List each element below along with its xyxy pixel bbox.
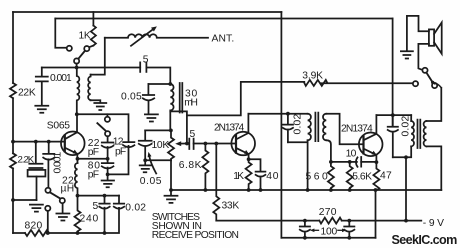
wire 30mH branch to transmit line: [170, 111, 187, 143]
wire bottom-left rail to 0.02 corner: [49, 208, 119, 233]
svg-text:-9V: -9V: [423, 218, 444, 229]
resistor 22K (in left rail): [10, 83, 16, 98]
svg-text:2N1374: 2N1374: [214, 123, 244, 134]
transistor S065 circle: [61, 132, 85, 156]
ground below feedback node: [102, 174, 114, 187]
capacitor 22pF plates: [102, 143, 114, 148]
capacitor 5 (audio coupling) plates: [189, 139, 193, 149]
wire Q2 emitter down: [248, 154, 250, 159]
ground below crystal: [30, 205, 43, 212]
node 100uF B top: [347, 219, 351, 223]
transformer T2 primary coil: [411, 121, 414, 146]
wire -9V line: [216, 220, 319, 222]
capacitor 0.05 (detector) bottom lead: [144, 146, 146, 160]
capacitor 0.001 lower lead to switch: [47, 159, 49, 187]
wire S1b lower contact to bottom rail: [47, 211, 49, 233]
resistor 270 (in -9V line): [319, 218, 341, 224]
transistor Q3 2N1374 base bar: [362, 136, 364, 153]
wire 3.9K to speaker switch contact: [321, 82, 413, 84]
wire Q3 collector row: [376, 114, 411, 116]
node 0.001 bypass top: [47, 140, 51, 144]
wire wiper node to 5 cap: [187, 143, 189, 145]
capacitor 5 bottom lead: [104, 208, 106, 233]
node emitter bypass: [76, 194, 80, 198]
oscillator transformer primary (left coil): [77, 68, 80, 115]
svg-text:560: 560: [306, 172, 328, 183]
wire 560 node to 5.6K node: [331, 161, 350, 163]
wire T1 primary bottom to ground rail: [307, 140, 309, 190]
svg-text:10: 10: [346, 149, 357, 160]
svg-text:240: 240: [80, 214, 99, 225]
svg-text:2N1374: 2N1374: [341, 124, 373, 135]
resistor 560: [328, 162, 334, 190]
node primary-bottom riser: [404, 155, 408, 159]
wire bottom rail right section: [281, 237, 375, 239]
switch S1c arm: [97, 123, 106, 131]
switch S1a arm: [78, 51, 85, 59]
node T1 primary bottom rail: [306, 188, 310, 192]
resistor 5.6K: [347, 162, 353, 190]
node junction at pole wire: [75, 66, 79, 70]
transistor S065 collector: [66, 114, 78, 139]
capacitor 10 plates: [356, 157, 361, 167]
node feedback lower: [106, 173, 110, 177]
svg-text:0.02: 0.02: [293, 114, 304, 135]
variable inductor (antenna tuning coil): [105, 34, 208, 38]
svg-text:0.05: 0.05: [121, 92, 142, 103]
svg-text:mH: mH: [184, 98, 198, 109]
node 6.8K bottom: [204, 188, 208, 192]
capacitor 0.001 plates: [36, 77, 48, 82]
switch S1d arm: [426, 73, 432, 83]
node 240 bottom: [76, 231, 80, 235]
node base rail left: [11, 140, 15, 144]
wire 0.02 IF bottom row: [288, 141, 308, 143]
wire collector node to 12pF corner: [77, 114, 129, 142]
speaker bottom terminal wire: [418, 44, 429, 70]
svg-text:820: 820: [25, 221, 43, 232]
wire switch pole to oscillator node: [76, 64, 78, 68]
svg-text:ANT.: ANT.: [212, 34, 235, 45]
label 100 right arrow: [338, 229, 343, 231]
svg-text:S065: S065: [47, 121, 70, 132]
capacitor 5 (top coupling) left plate: [139, 62, 141, 72]
transistor Q2 emitter: [237, 148, 249, 154]
capacitor 40: [256, 172, 266, 190]
svg-text:5.6K: 5.6K: [352, 172, 372, 183]
capacitor 5 (emitter bypass) plates: [99, 204, 109, 209]
wire left rail lower: [12, 98, 14, 233]
ground stub below 0.05 det: [140, 160, 151, 172]
resistor 3.9K: [304, 80, 327, 86]
node feedback mid: [106, 157, 110, 161]
svg-text:1K: 1K: [79, 31, 91, 42]
svg-text:270: 270: [319, 207, 337, 218]
svg-text:pF: pF: [88, 170, 99, 181]
node 0.02 IF top: [286, 112, 290, 116]
wire Q2 collector row: [248, 113, 307, 115]
node crystal top: [34, 140, 38, 144]
leader arrow for 0.05 label: [149, 156, 156, 173]
ground symbol on rail at 10K: [165, 190, 178, 203]
switch S1c pole: [105, 131, 110, 136]
resistor 2.2K (in left rail): [10, 153, 16, 168]
wire Q2 emitter to 40 cap: [249, 159, 261, 171]
wire 5 cap to 30mH corner: [146, 68, 170, 85]
wire 80pF to lower node: [107, 168, 109, 175]
capacitor 22pF top lead from S1c pole: [107, 136, 109, 142]
resistor 33K (base wire to -9V): [213, 144, 219, 221]
transformer T1 core: [315, 113, 318, 142]
ground below speaker: [401, 51, 413, 58]
node bottom rail switch riser: [46, 231, 50, 235]
transistor Q2 2N1374 base bar: [235, 135, 237, 152]
speaker top terminal wire: [407, 16, 429, 50]
switch S1b pole ground stub: [62, 203, 64, 212]
node 560 bottom: [329, 188, 333, 192]
inductor 22uH: [75, 163, 78, 196]
switch S1b contact lower: [45, 206, 50, 211]
resistor 47: [373, 162, 379, 190]
wire S1d right contact to T2 riser: [435, 84, 442, 88]
transformer T2 core: [418, 120, 421, 148]
switch S1b pole: [60, 198, 65, 203]
wire 0.05 det to 10K bottom: [145, 159, 171, 161]
speaker driver: [429, 29, 434, 45]
wire 0.02 output bottom row: [393, 146, 411, 157]
capacitor 0.02 (emitter bypass) plates: [114, 204, 124, 209]
svg-text:5: 5: [143, 55, 149, 66]
transistor S065 emitter column node: [76, 157, 80, 161]
node 5 top: [103, 194, 107, 198]
capacitor 0.001 emitter-switch plates: [43, 154, 54, 160]
wire 5.6K node to 10 cap: [350, 161, 357, 163]
potentiometer 10K element: [168, 130, 174, 160]
svg-text:RECEIVE POSITION: RECEIVE POSITION: [152, 230, 239, 241]
label 100 left arrow: [314, 229, 319, 231]
node 10K top: [169, 129, 173, 133]
wire T1 secondary bottom down: [326, 140, 331, 162]
capacitor 0.02 (output): [388, 115, 398, 157]
wire emitter down to 22uH: [76, 154, 78, 163]
node 33K top: [214, 142, 218, 146]
wire T1 secondary top to Q3 base: [326, 114, 363, 145]
ground below 0.05 osc: [145, 114, 158, 121]
transistor Q2 collector: [237, 114, 249, 139]
svg-text:6.8K: 6.8K: [179, 160, 202, 171]
node Q3 emitter: [375, 160, 379, 164]
wire emitter to feedback node: [78, 158, 108, 160]
capacitor 0.05 (detector) top lead: [144, 130, 146, 140]
ground below oscillator secondary: [94, 103, 106, 110]
capacitor 0.05 (detector) plates: [139, 141, 152, 146]
crystal bottom lead: [36, 177, 38, 201]
wire left rail to crystal ground: [13, 199, 37, 201]
wire second rail right drop to output stage: [392, 19, 394, 127]
wire T2 primary top lead: [410, 115, 412, 121]
wire riser to -9V: [405, 157, 407, 220]
transistor Q2 emitter arrowhead: [244, 150, 249, 155]
resistor 1K lead from top rail: [92, 12, 94, 26]
wire bottom-left rail segment: [13, 232, 25, 234]
transistor Q3 2N1374 circle: [359, 133, 383, 157]
wire bypass row: [78, 195, 120, 197]
wire T2 secondary top to switch: [426, 88, 441, 121]
node 560 top: [329, 160, 333, 164]
transformer T1 secondary coil: [323, 114, 326, 141]
capacitor 0.02 (emitter bypass) top lead: [118, 196, 120, 204]
node 30mH top: [168, 82, 172, 86]
resistor 1K (Q2 emitter): [246, 159, 252, 190]
wire left rail upper (to 22K): [12, 12, 14, 83]
capacitor 0.05 (osc tank) top lead: [147, 84, 149, 95]
transistor S065 base bar: [64, 135, 66, 151]
svg-text:0.001: 0.001: [53, 152, 64, 174]
wire T2 secondary bottom to ground rail: [426, 146, 441, 190]
wire 1K to switch contact: [89, 46, 93, 48]
capacitor 0.02 bottom lead: [118, 207, 120, 210]
svg-text:SeekIC.com: SeekIC.com: [392, 233, 458, 247]
svg-text:0.001: 0.001: [50, 73, 72, 84]
capacitor 0.05 (osc tank) plates: [143, 95, 154, 100]
variable inductor arrow: [131, 30, 153, 46]
wire 10 cap to Q3 emitter: [361, 161, 376, 163]
capacitor 12pF plates: [123, 142, 134, 147]
transistor S065 emitter arrowhead: [73, 150, 78, 155]
node 1K bottom: [247, 188, 251, 192]
node collector-rail junction: [391, 113, 395, 117]
node left rail y200: [11, 198, 15, 202]
wire 10K top to 0.05 det: [145, 129, 171, 131]
capacitor 0.001 emitter-switch top lead: [48, 142, 50, 154]
resistor 6.8K: [202, 144, 208, 191]
wire 0.05 to 30mH node: [148, 83, 170, 85]
resistor 820 (in bottom rail): [25, 230, 49, 236]
switch S1a pole: [74, 58, 79, 63]
oscillator transformer secondary (right coil): [88, 75, 90, 101]
wire ground rail riser to bottom rail: [375, 190, 377, 238]
node 5.6K top: [348, 160, 352, 164]
svg-text:22K: 22K: [18, 88, 36, 99]
capacitor 100uF A: [300, 221, 310, 238]
switch S1a contact right: [84, 46, 89, 51]
node 5.6K bottom: [348, 188, 352, 192]
svg-text:100: 100: [321, 227, 338, 238]
svg-text:40: 40: [266, 171, 278, 182]
capacitor 80pF plates: [102, 163, 114, 168]
switch S1a contact left: [67, 46, 72, 51]
node 0.05 det bottom: [143, 158, 147, 162]
switch S1b contact upper: [45, 188, 50, 193]
transistor S065 emitter: [66, 148, 77, 154]
svg-text:0.02: 0.02: [125, 203, 146, 214]
svg-text:0.02: 0.02: [401, 116, 412, 137]
transistor Q3 collector: [364, 115, 376, 140]
ground below 0.001: [35, 106, 48, 113]
switch S1d contact right: [432, 83, 437, 88]
capacitor 100uF B: [344, 221, 354, 238]
inductor 30mH: [170, 84, 173, 130]
switch S1b arm: [50, 192, 60, 198]
wire branch to 3.9K riser: [187, 82, 304, 116]
node 5 bottom: [103, 231, 107, 235]
node 100uF A bottom: [303, 236, 307, 240]
speaker cone: [434, 23, 442, 54]
capacitor 0.001 top lead: [41, 68, 43, 77]
ground rail: [171, 189, 441, 191]
wire secondary bottom to ground: [91, 100, 101, 102]
svg-text:µH: µH: [61, 184, 75, 195]
wire -9V line right section: [342, 220, 422, 222]
svg-text:0.05: 0.05: [140, 176, 162, 187]
svg-text:5: 5: [190, 129, 196, 140]
capacitor 0.02 (IF tank): [283, 114, 293, 143]
svg-text:5: 5: [93, 201, 99, 212]
ground below S1b pole: [56, 214, 69, 221]
transistor Q3 emitter: [364, 149, 376, 155]
crystal box: [28, 170, 46, 177]
crystal top lead: [35, 142, 37, 164]
node 6.8K top: [204, 142, 208, 146]
wire long vertical from top rail down right side of mid section: [280, 12, 282, 238]
switch S1d contact left (3.9K): [413, 81, 418, 86]
switch S1d pole: [422, 68, 427, 73]
node 100uF A top: [303, 219, 307, 223]
wire secondary top to antenna riser: [91, 38, 105, 75]
svg-text:47: 47: [380, 171, 392, 182]
wire Q3 emitter down: [375, 155, 377, 162]
transistor S065 base lead (wire from left rail): [13, 141, 65, 143]
transformer T2 secondary coil: [424, 121, 427, 146]
capacitor 0.001 bottom lead: [41, 82, 43, 105]
transformer T1 primary coil: [308, 114, 311, 141]
capacitor 80pF top lead: [107, 159, 109, 163]
wire 12pF bottom link: [108, 146, 129, 175]
switch S1d arm blob: [431, 81, 434, 84]
svg-text:pF: pF: [115, 147, 126, 158]
resistor 240: [75, 196, 81, 233]
wire second rail left drop to switch contact: [55, 19, 66, 48]
node Q2 emitter: [247, 157, 251, 161]
wire node row y67.5 (0.001 to 5pF cap): [42, 67, 140, 69]
node 40 bottom: [259, 188, 263, 192]
switch S1c contact (stub below wire): [106, 114, 108, 117]
node base wire at riser: [185, 142, 189, 146]
crystal plates: [29, 164, 42, 168]
node 47 bottom: [374, 188, 378, 192]
node 100uF B bottom: [347, 236, 351, 240]
transistor Q2 2N1374 circle: [231, 132, 255, 156]
node collector junction: [75, 112, 79, 116]
capacitor 5 (emitter bypass) top lead: [104, 196, 106, 204]
node ground rail left end: [169, 188, 173, 192]
svg-text:1K: 1K: [233, 171, 244, 182]
resistor 1K: [91, 26, 96, 46]
svg-text:2.2K: 2.2K: [18, 155, 35, 166]
svg-text:3.9K: 3.9K: [302, 71, 323, 82]
inductor 30mH core lines: [180, 83, 183, 113]
svg-text:pF: pF: [88, 147, 99, 158]
svg-text:33K: 33K: [222, 201, 240, 212]
wire 5 cap to Q2 base: [194, 143, 236, 145]
svg-text:10K: 10K: [152, 140, 170, 151]
wire 22pF to mid node: [107, 147, 109, 159]
capacitor 5 (top coupling) right plate: [145, 62, 147, 72]
wire top ground rail: [13, 11, 281, 13]
wire second rail B+: [55, 18, 392, 20]
potentiometer 10K wiper arrow: [180, 143, 187, 145]
capacitor 0.05 lower lead: [148, 101, 150, 113]
wire 10K bottom to ground rail: [170, 160, 172, 190]
transistor Q3 emitter arrowhead: [372, 151, 377, 156]
node -9V riser: [404, 219, 408, 223]
